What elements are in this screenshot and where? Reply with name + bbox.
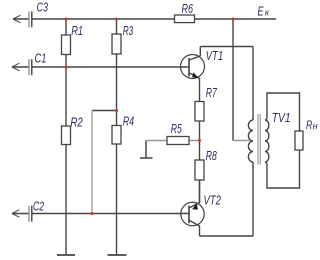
svg-text:к: к	[265, 8, 270, 19]
svg-text:R8: R8	[206, 150, 217, 164]
svg-text:R5: R5	[171, 123, 182, 137]
svg-text:R4: R4	[123, 115, 134, 129]
svg-text:н: н	[313, 121, 318, 131]
svg-text:R1: R1	[71, 25, 83, 39]
svg-text:R7: R7	[206, 87, 218, 101]
svg-text:TV1: TV1	[272, 112, 291, 125]
svg-text:C3: C3	[37, 1, 48, 15]
svg-text:R2: R2	[70, 116, 83, 129]
svg-text:C1: C1	[35, 52, 47, 66]
svg-text:E: E	[258, 5, 265, 19]
svg-text:VT1: VT1	[206, 50, 224, 63]
svg-text:VT2: VT2	[203, 194, 221, 207]
svg-text:R3: R3	[123, 24, 134, 38]
svg-text:C2: C2	[33, 200, 44, 214]
svg-text:R6: R6	[182, 3, 194, 17]
